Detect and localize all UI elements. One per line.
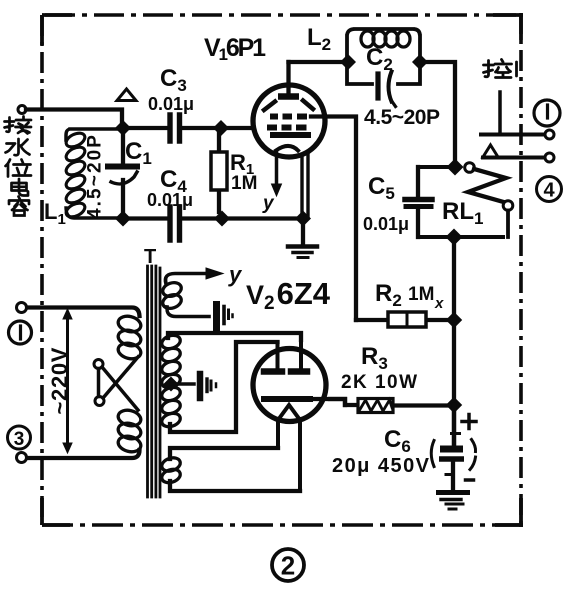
contact armature triangle [483, 145, 498, 157]
V1 heater lead arrow y [275, 153, 279, 185]
main B+ vertical line [452, 237, 456, 449]
svg-text:C3: C3 [160, 65, 187, 95]
terminal circled 4 right [537, 177, 562, 202]
resistor R3 wirewound box [330, 399, 358, 405]
V1 beam plates [264, 102, 275, 111]
W2 top lead to V2 right anode [168, 333, 301, 340]
tube V1 6P1 envelope [253, 85, 325, 157]
W3 bottom lead [170, 481, 300, 491]
secondary W1 heater winding [161, 280, 183, 310]
voltage selector X [94, 360, 103, 369]
terminal: left water-level input [18, 106, 26, 114]
relay RL1 coil loop [418, 167, 503, 237]
terminal circled 2 bottom [272, 549, 304, 581]
svg-text:y: y [228, 262, 243, 287]
svg-text:y: y [262, 193, 275, 214]
svg-text:1M: 1M [408, 284, 434, 305]
svg-text:L2: L2 [307, 24, 331, 54]
wire: plate to tank [289, 60, 349, 64]
secondary W3 heater winding [160, 456, 182, 485]
svg-text:C1: C1 [125, 138, 152, 168]
node A top rail: L1 top to C3 to grid [123, 126, 166, 130]
terminal circled 3 left [8, 426, 31, 450]
svg-text:C6: C6 [384, 426, 411, 456]
C6 minus sign [466, 478, 474, 482]
tank L2/C2 box [347, 29, 420, 84]
resistor R1 [217, 134, 221, 212]
variable capacitor C2 [375, 74, 380, 98]
svg-text:2K 10W: 2K 10W [341, 372, 417, 393]
V1 cathode leads down [302, 152, 308, 218]
svg-text:0.01μ: 0.01μ [148, 94, 194, 114]
primary bottom lead [26, 450, 140, 458]
char 接 [5, 117, 32, 134]
svg-text:~220V: ~220V [47, 347, 72, 414]
220V arrow [66, 316, 69, 447]
char 电 [12, 179, 29, 196]
L2 coil loops [361, 31, 410, 47]
svg-text:4.5~20P: 4.5~20P [85, 135, 106, 219]
svg-text:3: 3 [14, 429, 25, 450]
char 位 [6, 160, 32, 177]
terminal circle 3 left [17, 453, 27, 463]
node dot RL1-top [447, 159, 463, 175]
V1 heater arc [276, 146, 298, 151]
terminal circled 1 left [9, 321, 32, 344]
svg-text:0.01μ: 0.01μ [363, 214, 409, 234]
wire: tank to relay line [420, 62, 455, 167]
V2 plate right [299, 333, 303, 368]
capacitor C3 [170, 115, 180, 141]
node dot tank-right [413, 55, 428, 70]
char 容 [9, 197, 29, 216]
svg-text:V16P1: V16P1 [204, 34, 266, 64]
capacitor C5 [416, 167, 420, 237]
node dot B1 [116, 211, 131, 226]
wire: screen grid to R2 line [311, 117, 356, 321]
V2 heater legs [278, 419, 300, 491]
W2 bottom lead to V2 left anode [170, 342, 278, 432]
svg-text:2: 2 [281, 551, 295, 581]
terminal circled 1 right [534, 100, 560, 126]
node dot A1 [116, 121, 131, 136]
V2 heater [278, 405, 300, 420]
variable capacitor C1 [121, 128, 125, 163]
node dot B3 [296, 211, 311, 226]
W1 bottom lead to chassis [167, 307, 209, 317]
tube V2 6Z4 envelope [253, 349, 326, 422]
chinese label: jie shui wei dian rong (vertical) [5, 117, 32, 216]
V1 screen grid dashes [270, 114, 307, 120]
RL1 armature zigzag [465, 163, 475, 173]
V1 cathode bar [270, 132, 311, 138]
V1 plate [278, 93, 299, 100]
capacitor C4 [170, 207, 180, 240]
svg-text:T: T [144, 246, 156, 268]
svg-text:1M: 1M [231, 173, 257, 194]
node dot R3 junction [447, 398, 462, 413]
chinese label: kong (control) [484, 60, 517, 78]
node dot tank-left [341, 55, 356, 70]
char 水 [6, 139, 30, 155]
node dot A2 [214, 121, 229, 136]
border frame dash-dot [42, 13, 523, 527]
node dot B2 [215, 211, 230, 226]
W3 top lead [170, 448, 278, 459]
transformer primary top lead [26, 308, 140, 317]
transformer core [148, 266, 161, 497]
svg-text:4.5~20P: 4.5~20P [364, 106, 440, 129]
svg-text:20μ 450V: 20μ 450V [332, 455, 430, 477]
primary winding top [117, 314, 143, 361]
svg-text:C2: C2 [366, 44, 393, 74]
chassis ground B [197, 374, 204, 398]
V2 plate left [276, 342, 280, 368]
W2 center tap [164, 377, 178, 391]
svg-text:L1: L1 [44, 199, 66, 228]
antenna triangle mark [117, 89, 136, 101]
L1 coil loops [64, 130, 87, 219]
relay contact line 2 [483, 156, 545, 160]
inductor L1 box [66, 129, 123, 140]
svg-text:R2: R2 [375, 280, 402, 310]
svg-text:V26Z4: V26Z4 [246, 276, 331, 314]
terminal circle 1 left [17, 303, 27, 313]
C6 plus sign [462, 415, 476, 429]
chassis ground A [213, 305, 220, 330]
V1 control grid dashes [267, 125, 307, 131]
ground for C6 [439, 490, 468, 495]
bottom rail: L1 bottom to C4 to cathode [123, 216, 166, 220]
svg-text:4: 4 [543, 180, 555, 202]
V2 cathode [264, 396, 310, 402]
relay contact line 1 [481, 133, 545, 137]
svg-text:C5: C5 [368, 173, 395, 203]
resistor R2 [356, 318, 454, 322]
svg-text:R3: R3 [361, 343, 388, 373]
C6 dashed circle [431, 440, 475, 475]
electrolytic capacitor C6 [452, 405, 456, 445]
primary winding bottom [117, 408, 143, 454]
wire: terminal to node A [26, 110, 122, 129]
svg-text:0.01μ: 0.01μ [147, 190, 193, 210]
W1 top lead arrow to y [165, 274, 207, 285]
node dot RL1-bottom [446, 229, 462, 245]
node dot R2 junction [447, 313, 462, 328]
control lead [498, 92, 502, 134]
svg-text:RL1: RL1 [442, 198, 483, 228]
secondary W2 HV winding [160, 333, 182, 429]
ground for V1 cathode [301, 222, 305, 246]
svg-text:x: x [434, 295, 444, 312]
